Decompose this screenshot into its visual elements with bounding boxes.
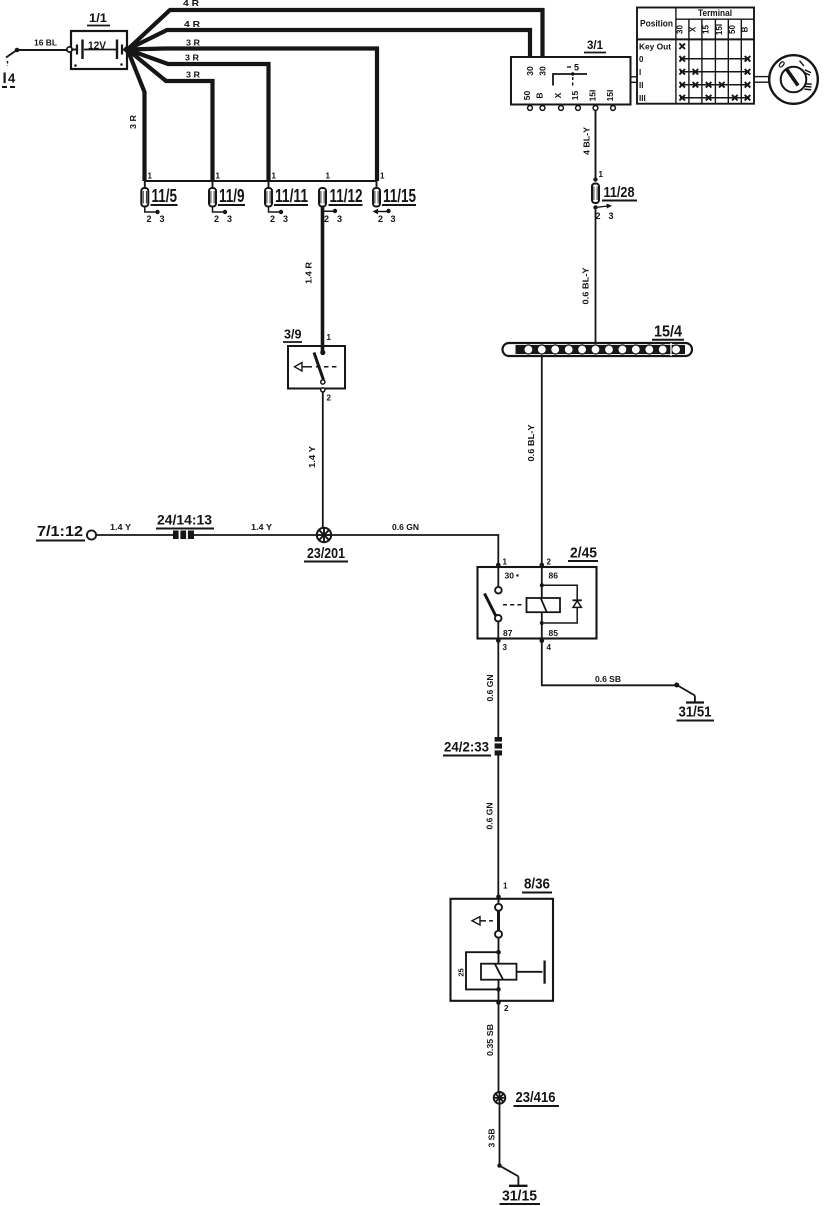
wire 1.4 Y (vertical): [307, 392, 323, 528]
terminal table: [637, 8, 754, 104]
svg-text:50: 50: [522, 91, 532, 101]
svg-text:1: 1: [503, 558, 508, 567]
svg-text:11/11: 11/11: [275, 186, 308, 206]
ignition switch 3/1: [511, 38, 631, 110]
svg-text:0: 0: [639, 55, 644, 64]
svg-text:3: 3: [391, 214, 396, 224]
actuation arrow: [472, 917, 480, 925]
svg-text:1: 1: [148, 172, 153, 181]
wire 0.6 GN to relay pin 1: [331, 522, 498, 563]
svg-text:3: 3: [503, 643, 508, 652]
svg-text:0.6 GN: 0.6 GN: [392, 522, 419, 532]
svg-text:4 R: 4 R: [183, 0, 199, 8]
wire from switch to terminal table: [631, 77, 638, 83]
key cylinder: [769, 55, 818, 104]
svg-text:11/12: 11/12: [330, 186, 363, 206]
fuse bus wire: [145, 180, 378, 182]
svg-text:Position: Position: [640, 19, 673, 29]
svg-text:3 R: 3 R: [185, 53, 199, 63]
svg-text:50: 50: [728, 25, 737, 34]
svg-text:25: 25: [457, 968, 466, 976]
svg-text:1: 1: [380, 172, 385, 181]
fuse 11/9: [209, 172, 245, 225]
fuse 11/12: [319, 172, 363, 225]
svg-text:2: 2: [378, 214, 383, 224]
fuse 11/11: [265, 172, 308, 225]
wire 0.6 SB to ground: [542, 641, 677, 686]
svg-text:4 BL-Y: 4 BL-Y: [582, 127, 592, 155]
svg-text:30: 30: [505, 571, 515, 581]
wire 0.6 GN (lower): [485, 756, 499, 897]
svg-text:15: 15: [702, 25, 711, 34]
svg-text:2: 2: [270, 214, 275, 224]
coil: [481, 964, 517, 980]
svg-text:24/14:13: 24/14:13: [157, 513, 213, 528]
contact with two terminals: [498, 899, 500, 904]
svg-text:1: 1: [272, 172, 277, 181]
svg-text:85: 85: [549, 628, 559, 638]
wire 3 R to fuse 11/11: [128, 50, 269, 182]
wire 4 BL-Y: [582, 111, 596, 180]
svg-text:3 R: 3 R: [128, 115, 138, 129]
svg-text:B: B: [535, 92, 545, 98]
svg-text:31/51: 31/51: [679, 704, 712, 721]
svg-text:0.6 BL-Y: 0.6 BL-Y: [526, 424, 536, 461]
svg-text:Key Out: Key Out: [639, 43, 671, 52]
svg-text:III: III: [803, 82, 815, 91]
wire 1.4 R: [304, 207, 323, 353]
svg-text:86: 86: [549, 571, 559, 581]
svg-text:15/4: 15/4: [654, 324, 682, 341]
svg-text:0.6 BL-Y: 0.6 BL-Y: [581, 267, 591, 304]
svg-text:30: 30: [538, 66, 548, 76]
svg-text:III: III: [639, 94, 646, 103]
svg-text:1: 1: [216, 172, 221, 181]
svg-text:3: 3: [283, 214, 288, 224]
wire 4 R to ignition pin 30 (top): [128, 0, 543, 57]
pin 1: [496, 563, 501, 568]
wire 0.35 SB: [485, 1003, 499, 1092]
svg-text:16 BL: 16 BL: [34, 38, 57, 48]
svg-text:11/5: 11/5: [152, 186, 178, 206]
svg-text:1.4 Y: 1.4 Y: [110, 522, 131, 532]
svg-text:31/15: 31/15: [502, 1188, 537, 1205]
svg-text:24/2:33: 24/2:33: [444, 740, 489, 755]
svg-text:2: 2: [214, 214, 219, 224]
pin 2: [540, 563, 545, 568]
svg-text:1.4 R: 1.4 R: [304, 262, 314, 284]
switch 3/9: [283, 328, 345, 403]
pin terminal circles: [528, 106, 533, 111]
svg-text:3 SB: 3 SB: [487, 1129, 497, 1148]
svg-text:1.4 Y: 1.4 Y: [251, 522, 272, 532]
svg-text:3 R: 3 R: [186, 38, 200, 48]
svg-text:30: 30: [525, 66, 535, 76]
connector stub label 4 (cut off at edge): [2, 71, 17, 88]
svg-text:11/28: 11/28: [604, 184, 635, 201]
svg-text:2/45: 2/45: [570, 545, 597, 562]
svg-text:12V: 12V: [88, 40, 107, 52]
wire 3 R to fuse 11/15: [128, 38, 378, 182]
svg-text:4: 4: [8, 71, 16, 86]
svg-text:1: 1: [326, 172, 331, 181]
horn relay 8/36: [451, 877, 554, 1014]
svg-text:1: 1: [327, 333, 332, 342]
splice 23/416: [494, 1089, 559, 1106]
svg-text:3: 3: [609, 211, 614, 221]
svg-text:2: 2: [504, 1004, 509, 1013]
wire 4 R to ignition pin 30 (second): [128, 19, 531, 57]
svg-text:15: 15: [570, 91, 580, 101]
svg-text:8/36: 8/36: [524, 877, 550, 893]
svg-text:87: 87: [503, 628, 513, 638]
wire 0.6 BL-Y (lower): [526, 356, 542, 564]
bypass loop: [466, 952, 499, 989]
svg-text:X: X: [553, 92, 563, 98]
svg-text:15I: 15I: [605, 90, 615, 102]
relay 2/45: [478, 545, 599, 653]
connector strip 15/4: [503, 324, 693, 357]
fuse 11/15: [373, 172, 417, 225]
wire 16 BL: [6, 38, 67, 67]
svg-text:15I: 15I: [588, 90, 598, 102]
connector 24/14:13: [156, 513, 214, 540]
svg-text:3/1: 3/1: [587, 38, 603, 52]
svg-text:11/15: 11/15: [383, 186, 416, 206]
svg-text:30: 30: [675, 25, 684, 34]
svg-text:23/416: 23/416: [516, 1089, 556, 1106]
coil: [541, 567, 543, 598]
connector 7/1:12: [36, 523, 96, 541]
svg-text:I: I: [639, 68, 641, 77]
wire 3 SB: [487, 1103, 500, 1165]
svg-text:2: 2: [147, 214, 152, 224]
svg-text:0.35 SB: 0.35 SB: [485, 1024, 495, 1056]
svg-text:3: 3: [160, 214, 165, 224]
svg-text:5: 5: [574, 63, 579, 73]
svg-text:3: 3: [337, 214, 342, 224]
ground 31/15: [497, 1163, 540, 1204]
svg-text:23/201: 23/201: [307, 545, 345, 562]
svg-text:B: B: [741, 26, 750, 32]
svg-text:0.6 SB: 0.6 SB: [595, 674, 621, 684]
connector 24/2:33: [443, 737, 502, 756]
svg-text:3 R: 3 R: [186, 70, 200, 80]
svg-text:1.4 Y: 1.4 Y: [307, 446, 317, 468]
wire 1.4 Y (horizontal): [96, 522, 317, 535]
ground 31/51: [674, 683, 714, 721]
svg-text:4: 4: [547, 643, 552, 652]
wire 3 R to fuse 11/5 (vertical): [128, 50, 145, 182]
svg-text:2: 2: [547, 558, 552, 567]
svg-text:3: 3: [227, 214, 232, 224]
svg-text:2: 2: [324, 214, 329, 224]
svg-text:2: 2: [327, 394, 332, 403]
switch contact: [497, 567, 499, 587]
wire from table to key cylinder: [754, 77, 770, 83]
fuse 11/28: [592, 170, 637, 221]
svg-text:0.6 GN: 0.6 GN: [485, 675, 495, 702]
table row connection lines: [680, 59, 750, 98]
svg-text:15I: 15I: [715, 24, 724, 35]
wire 0.6 GN (relay pin 3 down): [485, 641, 498, 737]
fuse 11/5: [141, 172, 177, 225]
splice 23/201: [304, 528, 348, 562]
svg-text:7/1:12: 7/1:12: [37, 523, 83, 540]
wire 3 R to fuse 11/9: [128, 50, 213, 182]
svg-text:4 R: 4 R: [184, 19, 200, 29]
wire 0.6 BL-Y (upper): [581, 210, 596, 344]
svg-text:0.6 GN: 0.6 GN: [485, 803, 495, 830]
diode branch: [542, 585, 577, 600]
svg-text:1/1: 1/1: [89, 11, 107, 25]
svg-text:3/9: 3/9: [284, 328, 302, 342]
svg-text:1: 1: [599, 170, 604, 179]
svg-text:11/9: 11/9: [219, 186, 245, 206]
svg-text:II: II: [639, 81, 643, 90]
table X marks: [679, 43, 750, 100]
svg-text:1: 1: [503, 882, 508, 891]
svg-text:X: X: [688, 26, 697, 32]
battery 1/1: [67, 11, 131, 69]
svg-text:Terminal: Terminal: [698, 8, 732, 18]
